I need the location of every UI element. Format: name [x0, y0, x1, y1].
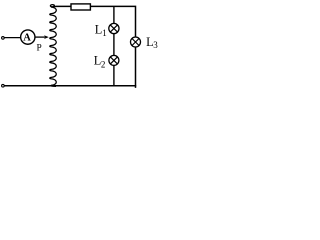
svg-text:3: 3	[153, 40, 158, 50]
svg-text:A: A	[23, 33, 31, 44]
svg-text:2: 2	[101, 59, 106, 69]
svg-text:L: L	[95, 22, 103, 36]
svg-text:P: P	[37, 43, 42, 53]
svg-text:1: 1	[102, 28, 107, 38]
